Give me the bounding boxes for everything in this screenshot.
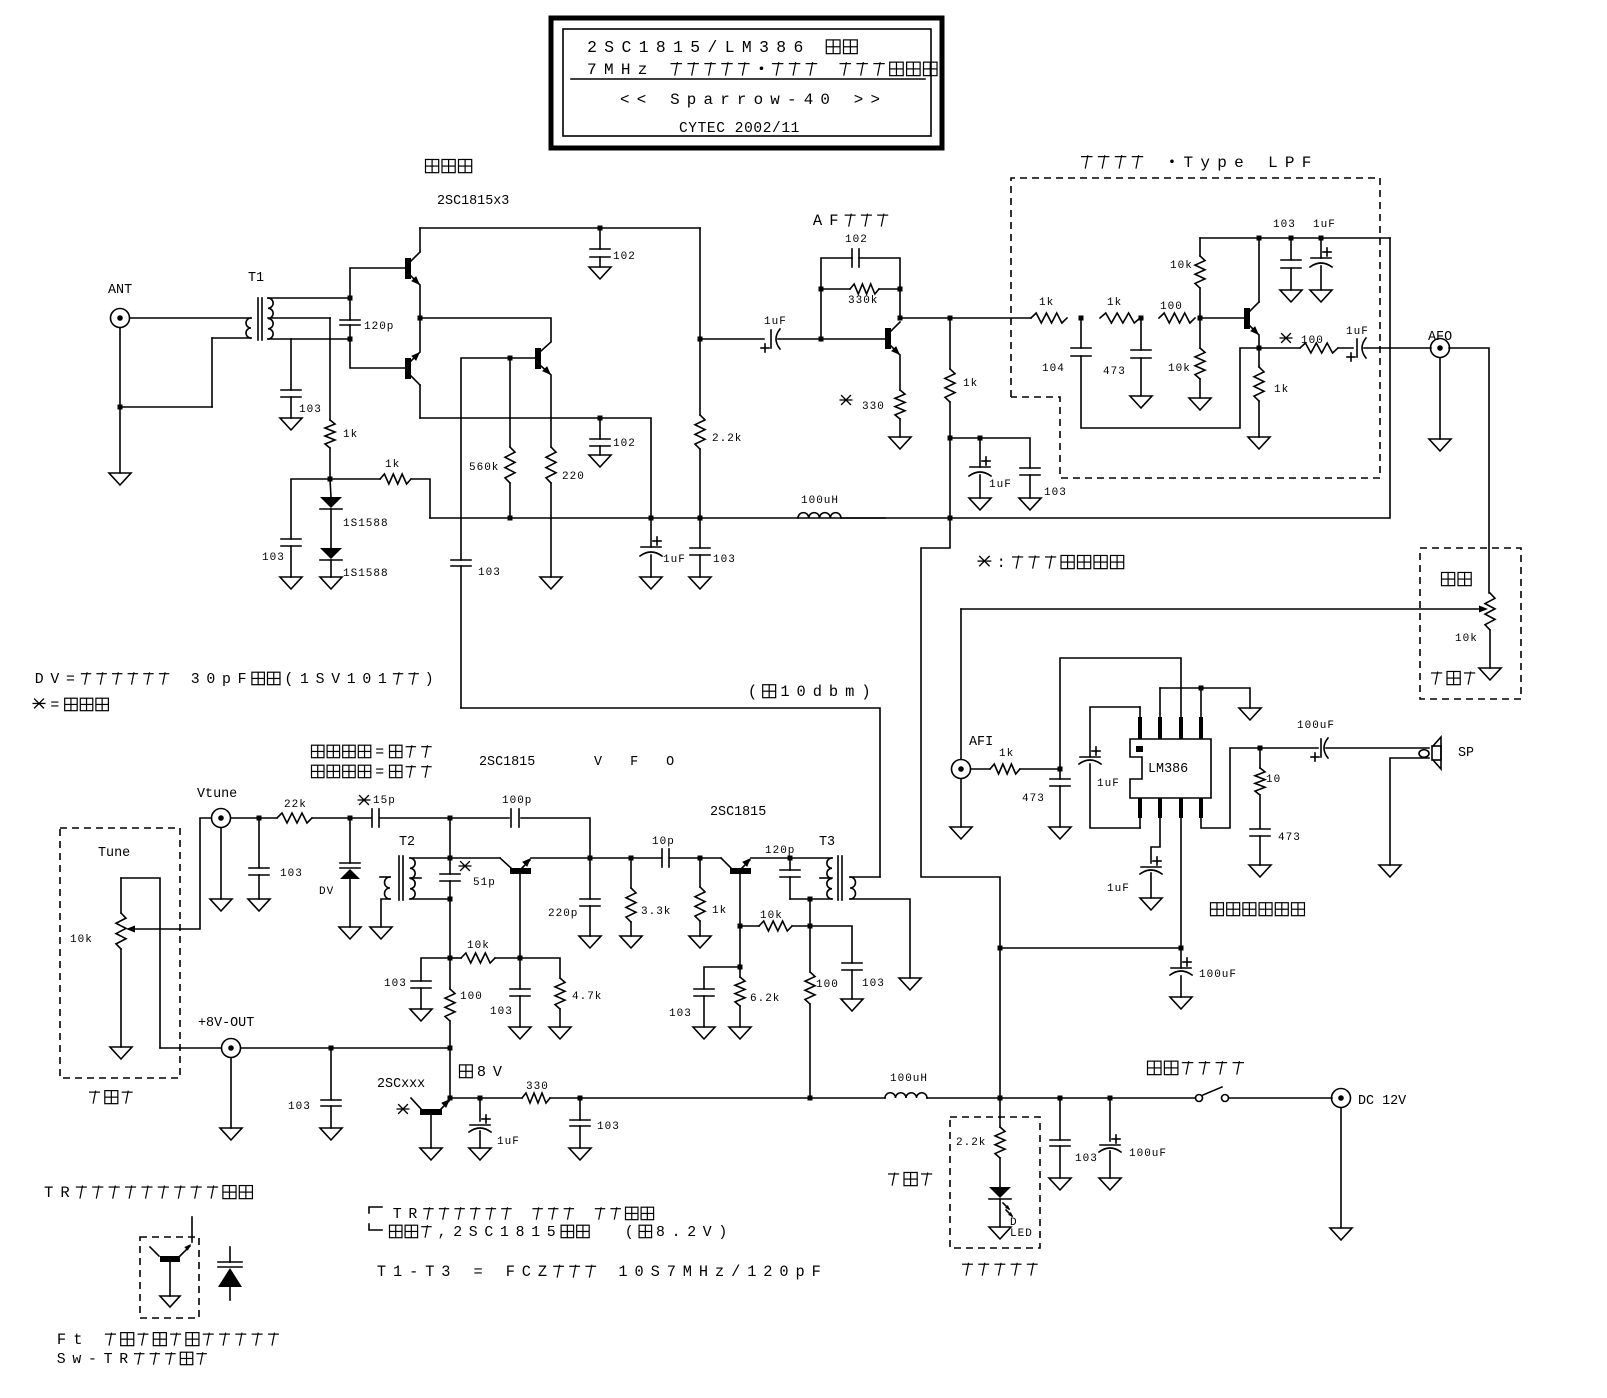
svg-text:10k: 10k [1455, 633, 1478, 645]
svg-text:4.7k: 4.7k [572, 991, 602, 1003]
diode 1S1588 lower [330, 509, 332, 548]
wire AFI to LM386 pin3 [1060, 658, 1181, 769]
svg-text:100: 100 [460, 991, 483, 1003]
capacitor 104 [1080, 318, 1082, 348]
resistor 10k LPF upper [1199, 288, 1201, 318]
svg-text:104: 104 [1042, 363, 1065, 375]
label level adjust resistor note [977, 556, 991, 566]
svg-text:p: p [795, 1263, 804, 1281]
svg-text:1: 1 [378, 672, 387, 688]
capacitor 103 power [1059, 1098, 1061, 1140]
connector AFO [1431, 339, 1450, 358]
svg-text:1uF: 1uF [764, 316, 787, 328]
svg-text:1S1588: 1S1588 [343, 518, 389, 530]
svg-text:3: 3 [191, 672, 200, 688]
wire T1 secondary top [268, 297, 350, 299]
diode 1S1588 upper [330, 479, 331, 497]
svg-text:T: T [104, 1352, 113, 1368]
svg-text:1: 1 [531, 1225, 540, 1241]
node buffer 1k [698, 856, 703, 861]
svg-text:d: d [813, 683, 822, 701]
svg-text:=: = [375, 765, 384, 781]
svg-text:z: z [715, 1263, 724, 1281]
svg-text:(: ( [748, 683, 757, 701]
svg-text:3: 3 [441, 1263, 450, 1281]
svg-text:102: 102 [613, 438, 636, 450]
svg-text:1uF: 1uF [497, 1136, 520, 1148]
ground LM386 [1239, 708, 1261, 720]
svg-text:): ) [718, 1225, 727, 1241]
wire VFO emitter line [531, 857, 661, 859]
capacitor 102 no2 bypass [599, 418, 601, 439]
svg-text:T: T [377, 1263, 386, 1281]
node LPF 473 [1139, 316, 1144, 321]
node 103 8Vout [329, 1046, 334, 1051]
svg-text:1: 1 [393, 1263, 402, 1281]
node 102 rail [598, 226, 603, 231]
LM386 pin2 bypass 1uF [1151, 818, 1160, 863]
speaker SP [1432, 746, 1441, 760]
svg-text:8: 8 [776, 38, 786, 57]
svg-text:T: T [425, 1263, 434, 1281]
wire T1 secondary tap [268, 317, 330, 319]
node 220p [588, 856, 593, 861]
LM386 bottom pins [1138, 798, 1142, 818]
node Vtune 103 [257, 816, 262, 821]
svg-text:y: y [1200, 154, 1210, 172]
transformer T2 [385, 877, 390, 899]
resistor 10k buffer fb [740, 925, 759, 927]
svg-text:10k: 10k [467, 940, 490, 952]
node Q4 collector [898, 316, 903, 321]
wire T1 primary return [120, 406, 212, 408]
svg-text:100p: 100p [502, 795, 532, 807]
svg-text:2: 2 [687, 1225, 696, 1241]
ground DC jack [1340, 1108, 1342, 1228]
svg-text:T: T [393, 1207, 402, 1223]
capacitor 1uF 8V [479, 1098, 481, 1121]
svg-text:V: V [50, 672, 59, 688]
svg-text:,: , [438, 1225, 447, 1241]
wire Q2 base [350, 339, 405, 368]
node buffer base low [738, 965, 743, 970]
svg-text:103: 103 [669, 1008, 692, 1020]
node DV [348, 816, 353, 821]
svg-text:): ) [861, 683, 870, 701]
ground +8V connector [230, 1058, 232, 1128]
svg-text:100: 100 [816, 979, 839, 991]
svg-text:2SC1815: 2SC1815 [710, 805, 766, 820]
capacitor 102 rail bypass [599, 228, 601, 249]
resistor 22k [277, 813, 312, 823]
transistor Q4 AF amp [885, 328, 891, 349]
svg-text:w: w [770, 91, 780, 109]
svg-text:2.2k: 2.2k [956, 1137, 986, 1149]
wire T3 sec bottom to ground [850, 899, 910, 978]
svg-text:F: F [506, 1263, 515, 1281]
node AFI 473 [1058, 767, 1063, 772]
svg-text:/: / [731, 1263, 740, 1281]
wire AF bus [430, 517, 885, 519]
resistor 2.2k AF input [699, 339, 701, 415]
svg-text:1: 1 [347, 672, 356, 688]
svg-text:C: C [484, 1225, 493, 1241]
svg-text:L: L [1268, 154, 1278, 172]
svg-text:T1: T1 [248, 271, 264, 286]
svg-text:D: D [35, 672, 44, 688]
svg-text:LED: LED [1010, 1228, 1033, 1240]
node 120p T3 [788, 856, 793, 861]
svg-text:102: 102 [613, 251, 636, 263]
svg-text:C: C [621, 38, 631, 57]
svg-text:+8V-OUT: +8V-OUT [198, 1016, 254, 1031]
capacitor 100uF power [1109, 1098, 1111, 1141]
svg-text:L: L [725, 38, 735, 57]
resistor 1k LPF input [1031, 313, 1067, 323]
LM386 pin6 supply [1180, 818, 1182, 948]
capacitor 473 AFI [1059, 769, 1061, 779]
svg-text:1k: 1k [1107, 297, 1122, 309]
svg-text:103: 103 [299, 404, 322, 416]
svg-text:1uF: 1uF [1313, 219, 1336, 231]
wire T3 primary bottom [790, 898, 832, 900]
svg-text:10k: 10k [70, 934, 93, 946]
resistor 330k feedback [819, 287, 824, 292]
capacitor 473 LPF [1140, 318, 1142, 350]
svg-text:t: t [73, 1331, 82, 1349]
resistor 1k buffer base [699, 858, 701, 887]
resistor 2.2k LED [999, 1098, 1001, 1127]
wire AFI line [961, 608, 1480, 610]
svg-text:ANT: ANT [108, 283, 132, 298]
wire rail to zener node [449, 1048, 451, 1098]
ground AFO [1439, 358, 1441, 439]
resistor 6.2k [739, 967, 741, 977]
label adjust note [32, 699, 45, 709]
resistor 1k T1 bias [329, 318, 331, 420]
resistor 1k AFI [971, 768, 990, 770]
svg-text:=: = [473, 1263, 482, 1281]
svg-text:z: z [638, 61, 648, 79]
capacitor 10p [661, 849, 663, 867]
wire rail down to AF node [699, 228, 701, 339]
capacitor 100uF supply [1180, 948, 1182, 968]
wire 1k to AF bus [411, 479, 430, 518]
wire VFO injection to T3 [461, 708, 880, 877]
ground diodes [330, 560, 332, 577]
resistor 100 LPF [1159, 313, 1195, 323]
svg-text:100: 100 [1160, 301, 1183, 313]
node AF feedback left [819, 337, 824, 342]
svg-text:(: ( [625, 1225, 634, 1241]
resistor 100 VFO supply [449, 958, 451, 989]
svg-text:T3: T3 [819, 835, 835, 850]
wire 1k to diode node [329, 448, 331, 479]
svg-text::: : [996, 554, 1005, 572]
svg-text:1k: 1k [1039, 297, 1054, 309]
feedback loop 102 330k [821, 258, 852, 339]
LM386 output pin5 [1201, 748, 1318, 828]
svg-text:5: 5 [547, 1225, 556, 1241]
svg-text:100uF: 100uF [1297, 720, 1335, 732]
svg-text:=: = [66, 672, 75, 688]
svg-text:6.2k: 6.2k [750, 993, 780, 1005]
node output 10ohm [1258, 746, 1263, 751]
svg-text:F: F [1302, 154, 1312, 172]
svg-text:0: 0 [362, 672, 371, 688]
svg-text:120p: 120p [765, 845, 795, 857]
resistor 100 buffer supply [809, 926, 811, 972]
svg-text:4: 4 [804, 91, 814, 109]
resistor 560k [509, 358, 511, 447]
svg-text:-: - [409, 1263, 418, 1281]
svg-text:100uH: 100uH [890, 1073, 928, 1085]
svg-text:S: S [469, 1225, 478, 1241]
node T3 supply [808, 897, 813, 902]
wire detector top rail [420, 227, 700, 229]
svg-text:S: S [604, 38, 614, 57]
capacitor 120p across T1 [349, 298, 351, 320]
capacitor 103 Vtune [258, 818, 260, 868]
svg-text:0: 0 [634, 1263, 643, 1281]
svg-text:<: < [637, 91, 647, 109]
svg-text:-: - [787, 91, 797, 109]
capacitor 103 supply [579, 1098, 581, 1120]
ground zener base [430, 1115, 432, 1148]
wire collector to LPF [900, 317, 1031, 319]
svg-text:1k: 1k [963, 378, 978, 390]
svg-text:1: 1 [639, 38, 649, 57]
transistor varicap substitute [191, 1217, 193, 1242]
svg-text:): ) [425, 672, 434, 688]
svg-text:LM386: LM386 [1148, 762, 1188, 777]
node 103 switch [1058, 1096, 1063, 1101]
svg-text:AFI: AFI [969, 735, 993, 750]
wire T2 main tap stub [410, 877, 421, 879]
transistor Q5 LPF [1244, 308, 1250, 329]
svg-text:560k: 560k [469, 462, 499, 474]
svg-text:1: 1 [747, 1263, 756, 1281]
svg-text:103: 103 [478, 567, 501, 579]
svg-text:1: 1 [500, 1225, 509, 1241]
node 102 no2 [598, 416, 603, 421]
wire switch to DC jack [1229, 1097, 1332, 1099]
capacitor 1uF AF out coupling [948, 316, 953, 321]
node T1 sec top [348, 296, 353, 301]
svg-text:2SC1815x3: 2SC1815x3 [437, 194, 509, 209]
capacitor 1uF bus decouple [950, 438, 1030, 468]
node LPF 1uF top [1319, 236, 1324, 241]
svg-text:220: 220 [562, 471, 585, 483]
svg-text:DV: DV [319, 886, 334, 898]
resistor 1k LPF emitter [1258, 348, 1260, 367]
node LPF base [1198, 316, 1203, 321]
node buffer fb [738, 924, 743, 929]
svg-text:7: 7 [667, 1263, 676, 1281]
svg-text:p: p [1217, 154, 1227, 172]
LED arrows [1003, 1203, 1009, 1209]
node zener [448, 1096, 453, 1101]
label yaku 8V [460, 1065, 473, 1078]
svg-text:H: H [699, 1263, 708, 1281]
LED D [989, 1187, 1011, 1198]
transistor Q2 mixer lower [405, 358, 411, 379]
node 560k [508, 356, 513, 361]
resistor 3.3k [630, 858, 632, 888]
wire emitters to Q3 collector [420, 318, 551, 341]
svg-text:1: 1 [780, 683, 789, 701]
svg-text:1k: 1k [385, 459, 400, 471]
node ANT ground junction [118, 405, 123, 410]
svg-text:1: 1 [300, 672, 309, 688]
ground AFI [960, 779, 962, 827]
node option [998, 1096, 1003, 1101]
svg-text:2: 2 [763, 1263, 772, 1281]
svg-text:p: p [222, 672, 231, 688]
svg-text:2.2k: 2.2k [712, 433, 742, 445]
svg-text:=: = [375, 745, 384, 761]
svg-text:15p: 15p [373, 795, 396, 807]
svg-text:6: 6 [793, 38, 803, 57]
svg-text:7: 7 [587, 61, 597, 79]
svg-text:T2: T2 [399, 835, 415, 850]
svg-text:103: 103 [713, 554, 736, 566]
node LPF emitter [1257, 346, 1262, 351]
svg-text:10: 10 [1266, 774, 1281, 786]
capacitor 473 zobel [1250, 828, 1270, 830]
wire Vtune right [231, 817, 277, 819]
label kahen haba sho [312, 765, 324, 777]
wire Q2 collector out [420, 417, 600, 419]
svg-text:AFO: AFO [1428, 330, 1452, 345]
transistor Q3 detector [535, 348, 541, 369]
svg-text:8: 8 [656, 38, 666, 57]
label sotozuke tune [89, 1091, 100, 1104]
svg-text:103: 103 [384, 978, 407, 990]
svg-text:-: - [88, 1352, 97, 1368]
node 1uF 8V [478, 1096, 483, 1101]
svg-text:330k: 330k [848, 295, 878, 307]
svg-text:A: A [813, 212, 823, 230]
connector Vtune [212, 809, 231, 828]
node 103 supply [578, 1096, 583, 1101]
capacitor 100p feedback [450, 817, 509, 819]
node VFO base [518, 956, 523, 961]
svg-text:1uF: 1uF [1346, 326, 1369, 338]
label onryou (volume) [1442, 572, 1455, 585]
capacitor 103 tank bottom [421, 958, 450, 981]
svg-text:F: F [57, 1331, 66, 1349]
volume dashed box [1420, 548, 1521, 699]
svg-text:100uF: 100uF [1199, 969, 1237, 981]
resistor 100 output with asterisk [1259, 347, 1300, 349]
resistor 10k VFO bias [450, 957, 461, 959]
wire T2 link bottom to ground [381, 899, 390, 927]
wire ANT to T1 [130, 317, 251, 319]
svg-text:100uF: 100uF [1129, 1148, 1167, 1160]
potentiometer 10k volume [1485, 593, 1495, 630]
svg-text:0: 0 [797, 683, 806, 701]
svg-text:5: 5 [690, 38, 700, 57]
wire LPF top rail [1200, 237, 1390, 239]
svg-text:220p: 220p [548, 908, 578, 920]
capacitor 103 VFO injection [451, 559, 471, 561]
inductor 100uH supply [885, 1093, 927, 1098]
LM386 ground pins line [1159, 688, 1161, 717]
label teishuha zofukuki (AF amplifier) [1211, 903, 1224, 916]
svg-text:F: F [238, 672, 247, 688]
node supply 948 [998, 946, 1003, 951]
svg-text:>: > [871, 91, 881, 109]
label bracket [369, 1207, 382, 1213]
svg-text:1uF: 1uF [663, 554, 686, 566]
capacitor 100uF output [1320, 739, 1322, 757]
svg-text:T: T [44, 1184, 53, 1202]
wire SP return to ground [1390, 758, 1429, 865]
svg-text:10k: 10k [1168, 363, 1191, 375]
svg-text:V F O: V F O [594, 755, 684, 770]
svg-text:S: S [651, 1263, 660, 1281]
svg-text:S: S [57, 1352, 66, 1368]
svg-text:100uH: 100uH [801, 495, 839, 507]
svg-text:330: 330 [862, 401, 885, 413]
node AF decouple [948, 436, 953, 441]
capacitor 103 T1 bypass [290, 339, 292, 390]
svg-text:0: 0 [820, 91, 830, 109]
node T1 sec bottom [348, 337, 353, 342]
node bus AF [948, 516, 953, 521]
capacitor 103 buffer base [704, 967, 740, 989]
svg-text:51p: 51p [473, 877, 496, 889]
LM386 top pins [1138, 717, 1142, 739]
resistor 4.7k VFO base [520, 958, 560, 978]
svg-text:m: m [845, 683, 854, 701]
option dashed box [950, 1117, 1040, 1248]
svg-text:1uF: 1uF [989, 479, 1012, 491]
node 100uF power [1108, 1096, 1113, 1101]
resistor 330 supply [522, 1093, 550, 1103]
svg-text:Z: Z [538, 1263, 547, 1281]
svg-text:473: 473 [1022, 793, 1045, 805]
capacitor 103 LPF top [1290, 238, 1292, 260]
svg-text:.: . [672, 1225, 681, 1241]
label Sallen-key Type LPF [1081, 155, 1093, 169]
wire AFO to pot [1449, 348, 1489, 593]
wire T2 link top stub [380, 876, 390, 878]
svg-text:103: 103 [597, 1121, 620, 1133]
svg-text:=: = [50, 698, 59, 714]
transistor 2SCxxx zener with asterisk [397, 1104, 410, 1114]
wire ANT stem down [119, 328, 121, 473]
transformer T3 [827, 858, 832, 899]
node buffer supply [808, 924, 813, 929]
label kenpadan (detector stage) [426, 159, 439, 172]
svg-text:r: r [737, 91, 747, 109]
resistor 1k bias feed [330, 478, 380, 480]
svg-text:S: S [670, 91, 680, 109]
wire T3 primary tap stub [820, 877, 832, 879]
svg-text:T: T [1183, 154, 1193, 172]
varicap substitute dashed box [140, 1237, 199, 1318]
svg-text:C: C [522, 1263, 531, 1281]
svg-text:V: V [703, 1225, 712, 1241]
svg-text:1k: 1k [712, 905, 727, 917]
inductor 100uH AF bus [798, 513, 841, 518]
svg-text:2SC1815: 2SC1815 [479, 755, 535, 770]
varactor DV [349, 818, 351, 863]
capacitor 103 8Vout [330, 1048, 332, 1100]
varactor symbol small [229, 1247, 231, 1262]
